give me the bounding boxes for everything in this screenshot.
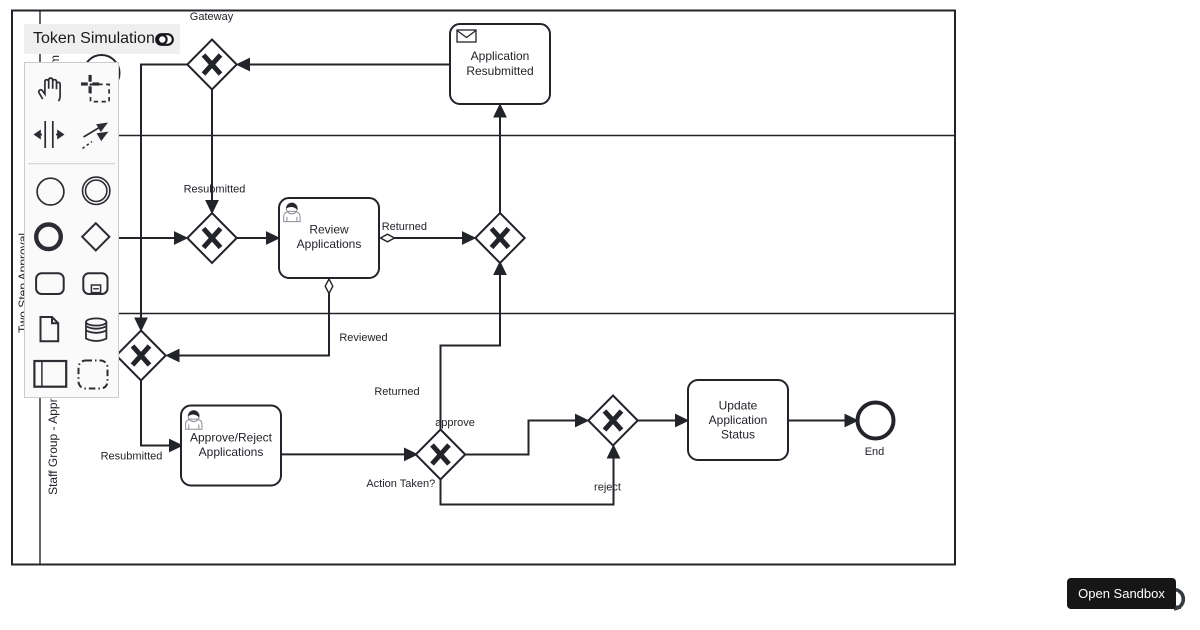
wire F4: hidden -> G2 left (105, 233, 186, 244)
wire F7: G3 -> Application Resubmitted (495, 106, 506, 214)
participant icon (34, 361, 66, 387)
svg-text:Applications: Applications (297, 237, 362, 251)
pool label band divider (39, 11, 41, 565)
svg-text:Applications: Applications (199, 445, 264, 459)
palette separator (28, 163, 115, 165)
svg-text:Resubmitted: Resubmitted (101, 451, 163, 463)
svg-text:Application: Application (709, 413, 768, 427)
task T2 Review Applications (user) (279, 198, 379, 278)
task T4 Update Application Status (688, 380, 788, 460)
start event icon (37, 178, 64, 205)
wire F10: G5 -> G6 (approve) (466, 415, 588, 454)
data object icon (40, 317, 58, 341)
svg-text:Resubmitted: Resubmitted (184, 183, 246, 195)
gateway G2 (187, 213, 236, 263)
wire F14: G4 bottom -> Approve/Reject Applications (Resubmitted) (141, 381, 181, 451)
task icon (36, 273, 64, 294)
space tool icon (35, 121, 63, 148)
wire F3: G1 left -> G4 top (136, 65, 187, 330)
global connect tool icon (82, 123, 108, 149)
data store icon (86, 318, 106, 341)
wire F15: Approve/Reject Applications -> G5 (281, 449, 416, 460)
svg-text:Approve/Reject: Approve/Reject (190, 431, 273, 445)
lane divider 2 (40, 313, 955, 315)
svg-text:reject: reject (594, 482, 621, 494)
gateway G6 merge (588, 396, 637, 446)
svg-text:Resubmitted: Resubmitted (466, 64, 533, 78)
svg-text:Review: Review (309, 223, 349, 237)
open sandbox button (1067, 578, 1176, 609)
start event (behind palette) (84, 55, 120, 91)
wire F2: G1 -> G2 (Resubmitted) (207, 90, 218, 213)
svg-text:Returned: Returned (374, 386, 419, 398)
gateway G1 (top, labeled Gateway) (187, 11, 236, 90)
task T3 Approve/Reject Applications (user) (181, 406, 281, 486)
svg-text:Returned: Returned (382, 221, 427, 233)
end event End (858, 403, 894, 459)
gateway icon (82, 223, 109, 250)
pool label Two Step Approval (16, 223, 30, 343)
intermediate event icon (82, 177, 109, 204)
group icon (78, 361, 107, 389)
svg-text:approve: approve (435, 417, 475, 429)
svg-text:Update: Update (719, 399, 758, 413)
wire F1: Application Resubmitted -> gateway G1 (238, 59, 450, 70)
svg-text:Status: Status (721, 428, 755, 442)
token simulation header (24, 24, 180, 54)
lane divider 1 (40, 135, 955, 137)
wire F12: G6 -> Update Application Status (638, 415, 687, 426)
svg-text:Action Taken?: Action Taken? (366, 478, 435, 490)
wire F13: Update Application Status -> End (788, 415, 857, 426)
svg-text:Gateway: Gateway (190, 11, 234, 23)
pool Two Step Approval (12, 11, 955, 565)
svg-text:End: End (865, 446, 885, 458)
wire F11: G5 bottom -> G6 bottom (reject) (441, 447, 619, 505)
gateway G5 Action Taken? (366, 430, 465, 491)
hand tool icon (38, 78, 59, 101)
partially hidden codesandbox glyph (1163, 585, 1193, 625)
wire F9: G5 top -> G3 bottom (Returned) (441, 263, 506, 430)
subprocess expanded icon (83, 273, 107, 294)
lasso tool icon (81, 75, 109, 102)
svg-text:Reviewed: Reviewed (339, 332, 387, 344)
gateway G3 (475, 213, 524, 263)
wire F6: Review Applications -> G3 (Returned, conditional) (381, 233, 475, 244)
end event icon (36, 225, 61, 250)
wire F5: G2 -> Review Applications (237, 233, 278, 244)
task T1 Application Resubmitted (receive) (450, 24, 550, 104)
gateway G4 (116, 331, 165, 381)
wire F8: Review Applications bottom -> G4 (Reviewed, conditional) (168, 279, 333, 361)
svg-text:Application: Application (471, 49, 530, 63)
bpmn palette (24, 62, 119, 398)
